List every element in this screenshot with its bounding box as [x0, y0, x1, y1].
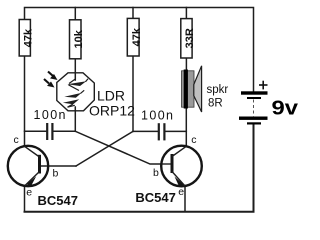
svg-text:LDR: LDR — [97, 88, 125, 104]
svg-text:47k: 47k — [23, 28, 35, 47]
wire stub to R3 — [132, 8, 134, 19]
svg-text:100n: 100n — [34, 108, 67, 122]
svg-text:b: b — [53, 168, 59, 180]
wire C1 left lead — [25, 130, 47, 132]
wire C2 left lead — [133, 130, 158, 132]
transistor Q2 BC547 — [161, 146, 202, 188]
wire speaker to Q2 collector — [185, 108, 187, 146]
svg-text:BC547: BC547 — [38, 193, 78, 208]
wire C2 right lead — [165, 130, 186, 132]
resistor R4 33R — [181, 19, 196, 58]
LDR zigzag — [68, 79, 89, 108]
transistor Q1 BC547 — [8, 146, 48, 187]
svg-text:33R: 33R — [184, 28, 196, 48]
wire stub to R2 — [74, 8, 76, 20]
battery B1 9v — [239, 91, 268, 124]
capacitor C2 100n — [159, 123, 165, 140]
svg-text:47k: 47k — [131, 27, 143, 46]
wire R1 to Q1 collector — [24, 56, 26, 146]
wire bottom rail — [25, 125, 254, 212]
svg-text:100n: 100n — [141, 108, 174, 122]
wire R2 to LDR — [74, 59, 76, 80]
svg-text:c: c — [14, 134, 19, 146]
svg-text:8R: 8R — [208, 98, 223, 110]
wire R3 to node B — [132, 56, 134, 131]
light arrow 2 — [44, 79, 55, 88]
svg-text:e: e — [26, 187, 32, 199]
svg-text:e: e — [178, 186, 184, 198]
speaker spkr 8R — [182, 66, 202, 112]
capacitor C1 100n — [47, 123, 52, 140]
label + — [259, 81, 268, 90]
LDR ORP12 body — [57, 73, 95, 111]
resistor R1 47k — [19, 20, 34, 57]
resistor R2 10k — [70, 20, 85, 59]
light arrow 1 — [48, 72, 58, 81]
wire cross-couple node B to Q1 base — [76, 131, 133, 166]
wire Q1 base — [41, 165, 76, 167]
svg-text:spkr: spkr — [207, 84, 229, 96]
svg-text:10k: 10k — [73, 29, 85, 48]
wire Q1 emitter to rail — [24, 186, 26, 212]
LDR zigzag blobs — [63, 81, 86, 104]
wire LDR to node A — [74, 107, 76, 131]
resistor R3 47k — [127, 18, 143, 56]
wire C1 right lead — [53, 130, 75, 132]
svg-text:BC547: BC547 — [135, 190, 175, 205]
wire stub to R4 — [185, 8, 187, 19]
svg-text:c: c — [191, 134, 196, 146]
wire Q2 emitter to rail — [184, 186, 186, 212]
svg-text:9v: 9v — [272, 98, 300, 120]
svg-text:ORP12: ORP12 — [89, 103, 135, 119]
wire top rail — [25, 8, 254, 92]
svg-text:b: b — [153, 167, 159, 179]
wire R4 to speaker — [185, 58, 187, 71]
wire cross-couple node A to Q2 base — [75, 131, 161, 164]
